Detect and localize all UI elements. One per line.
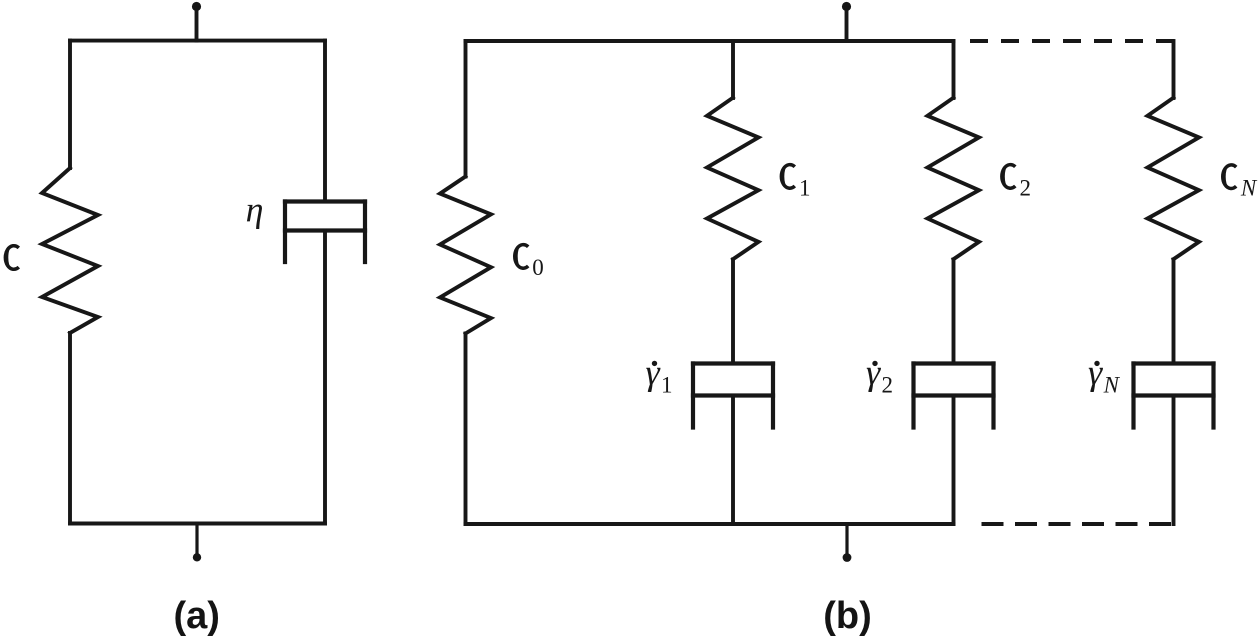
terminal dot top (a): [192, 2, 201, 11]
svg-text:N: N: [1240, 176, 1258, 201]
wire: bottom stub (b): [845, 524, 848, 556]
svg-text:γ: γ: [866, 352, 881, 392]
dashpot 1: right wall (b): [771, 364, 775, 428]
svg-text:γ: γ: [1088, 352, 1103, 392]
wire: top bus solid (b): [466, 39, 954, 43]
dashpot 2: right wall (b): [991, 364, 995, 428]
label CN (b): [1223, 165, 1258, 201]
dashpot eta: cylinder cap (a): [285, 199, 365, 203]
wire: left branch lower (a): [68, 333, 72, 524]
terminal dot bottom (a): [193, 553, 201, 561]
svg-text:γ: γ: [646, 352, 661, 392]
dashpot 2: piston plate (b): [914, 393, 994, 397]
spring C (diagram a): [42, 168, 98, 333]
wire: top stub (a): [195, 8, 199, 41]
label C (diagram a): [5, 246, 18, 270]
dashpot N: left wall (b): [1131, 364, 1135, 428]
wire: branch N piston rod (b): [1172, 396, 1176, 525]
dashpot N: right wall (b): [1211, 364, 1215, 428]
dashpot N: cylinder cap (b): [1134, 361, 1214, 365]
wire: branch 1 upper (b): [731, 41, 735, 98]
dashpot eta: right wall (a): [363, 202, 367, 263]
dashpot 1: left wall (b): [691, 364, 695, 428]
wire: branch C0 lower (b): [464, 334, 468, 525]
wire: top bus (a): [70, 39, 325, 43]
wire: right branch upper (a): [323, 41, 327, 202]
svg-text:N: N: [1103, 373, 1121, 398]
label C0 (b): [515, 245, 544, 280]
svg-text:1: 1: [661, 373, 673, 398]
wire: branch N middle (b): [1172, 260, 1176, 364]
wire: left branch upper (a): [68, 41, 72, 168]
terminal dot bottom (b): [843, 553, 852, 562]
spring C1 (b): [707, 98, 759, 260]
label gamma-dot 1 (b): [646, 352, 673, 397]
dashpot N: piston plate (b): [1134, 393, 1214, 397]
spring CN (b): [1148, 98, 1200, 260]
terminal dot top (b): [842, 2, 851, 11]
label gamma-dot 2 (b): [866, 352, 893, 397]
wire: right branch lower / piston rod (a): [323, 231, 327, 524]
svg-text:2: 2: [1020, 176, 1032, 201]
wire: bottom bus dashed (b): [970, 522, 1174, 526]
svg-text:2: 2: [882, 373, 894, 398]
wire: branch N upper (b): [1172, 41, 1176, 98]
svg-text:η: η: [246, 190, 264, 230]
wire: bottom bus (a): [70, 522, 325, 526]
wire: top bus dashed (b): [957, 39, 1174, 43]
spring C2 (b): [928, 98, 980, 260]
wire: branch 2 upper (b): [952, 41, 956, 98]
svg-text:(a): (a): [173, 595, 219, 636]
wire: branch C0 upper (b): [464, 41, 468, 177]
label C2 (b): [1002, 165, 1031, 201]
wire: branch 2 middle (b): [952, 260, 956, 364]
svg-text:0: 0: [532, 255, 544, 280]
svg-text:1: 1: [799, 176, 811, 201]
dashpot 2: left wall (b): [911, 364, 915, 428]
dashpot 1: piston plate (b): [693, 393, 773, 397]
dashpot 2: cylinder cap (b): [914, 361, 994, 365]
svg-text:(b): (b): [823, 595, 872, 636]
wire: branch 1 piston rod (b): [731, 396, 735, 525]
wire: branch 2 piston rod (b): [952, 396, 956, 525]
wire: branch 1 middle (b): [731, 260, 735, 364]
dashpot eta: left wall (a): [283, 202, 287, 263]
dashpot eta: piston plate (a): [285, 228, 365, 232]
wire: top stub (b): [845, 8, 849, 41]
spring C0 (b): [440, 177, 491, 334]
wire: bottom stub (a): [195, 524, 198, 557]
label gamma-dot N (b): [1088, 352, 1121, 397]
label C1 (b): [781, 165, 810, 201]
wire: bottom bus solid (b): [466, 522, 954, 526]
dashpot 1: cylinder cap (b): [693, 361, 773, 365]
